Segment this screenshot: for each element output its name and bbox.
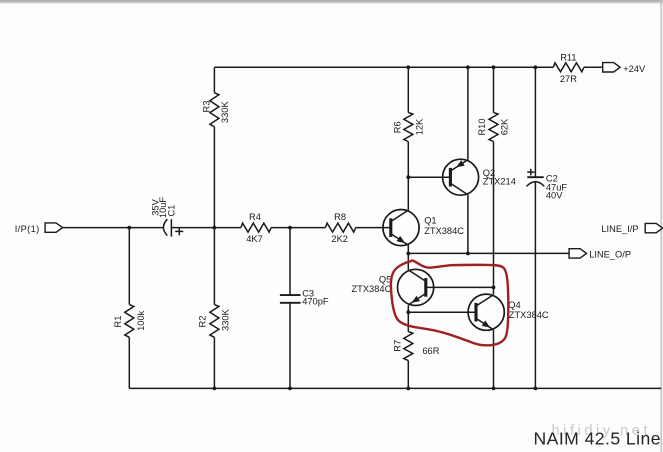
output tag LINE_I/P [601,223,662,234]
node C2 bottom [534,387,538,391]
node R6 top [406,65,410,69]
wire Q5 base [426,286,494,288]
resistor R7 66R [392,312,439,388]
resistor R11 27R [553,53,584,84]
wire Q4 base [408,311,476,313]
svg-text:2K2: 2K2 [331,234,348,244]
wire Q5 collector up [407,253,409,269]
wire Q1 emitter down [407,245,409,253]
svg-text:12K: 12K [414,118,424,135]
svg-text:ZTX384C: ZTX384C [509,310,549,320]
wire Q2 collector down [467,195,469,254]
node Q4 base junction [406,310,410,314]
svg-text:100k: 100k [136,310,146,331]
wire Q2 emitter to rail [467,67,469,159]
wire ground bottom rail [129,387,661,389]
svg-text:Q5: Q5 [379,275,391,285]
node R1 top junction [127,226,131,230]
svg-text:ZTX384C: ZTX384C [352,284,392,294]
svg-text:R7: R7 [392,340,402,352]
transistor Q5 ZTX384C (mirrored) [352,269,434,305]
transistor Q1 ZTX384C [383,210,464,246]
node R7 bottom [406,387,410,391]
node R2 bottom [213,387,217,391]
svg-text:R8: R8 [334,212,346,222]
svg-text:62K: 62K [500,118,510,135]
wire Q1 collector [407,177,409,210]
wire R8 to Q1 base [356,227,391,229]
resistor R4 4K7 [241,212,271,244]
svg-text:ZTX384C: ZTX384C [424,226,464,236]
wire R4 node to zigzag [214,227,241,229]
svg-text:4K7: 4K7 [246,234,263,244]
svg-text:R1: R1 [113,316,123,328]
node Q1 collector / Q2 base [406,175,410,179]
svg-text:LINE_I/P: LINE_I/P [601,224,638,234]
output tag LINE_O/P [569,249,631,260]
capacitor C3 470pF [280,228,329,389]
node Q5 base / Q4 collector / R10 bottom [492,286,496,290]
wire +24V top rail [214,66,553,68]
wire Q4 emitter down [493,330,495,389]
power tag +24V [603,63,646,74]
svg-text:R6: R6 [393,121,403,133]
svg-text:Q4: Q4 [508,300,520,310]
node Q4 emitter bottom [492,387,496,391]
svg-text:R2: R2 [198,316,208,328]
resistor R3 330K [201,67,230,227]
svg-text:Q1: Q1 [424,216,436,226]
svg-text:R4: R4 [249,212,261,222]
svg-text:27R: 27R [560,74,577,84]
resistor R8 2K2 [325,212,355,244]
wire Q2 base [408,176,450,178]
wire Q4 collector up [493,287,495,294]
svg-text:R3: R3 [201,101,211,113]
node Q2 collector junction [466,252,470,256]
svg-text:330K: 330K [220,101,230,124]
svg-text:ZTX214: ZTX214 [483,177,516,187]
wire R4 to R8 [271,227,325,229]
resistor R10 62K [477,67,510,287]
input tag I/P(1) [15,223,63,234]
node C2 top [534,65,538,69]
svg-text:40V: 40V [546,191,563,201]
svg-text:I/P(1): I/P(1) [15,224,40,234]
wire Q5 emitter down [407,305,409,312]
node Q1 emitter junction [406,252,410,256]
annotation red highlight loop around Q5/Q4 [391,260,508,345]
wire R11 to +24V tag [584,66,603,68]
svg-text:470pF: 470pF [302,297,329,307]
resistor R1 100k [113,228,146,389]
svg-text:R10: R10 [477,118,487,135]
node R10 top [492,65,496,69]
resistor R2 330K [198,228,231,389]
wire C1 to node [171,227,214,229]
node R3/R2 junction [213,226,217,230]
node C3 top junction [288,226,292,230]
transistor Q4 ZTX384C [468,294,549,330]
svg-text:LINE_O/P: LINE_O/P [589,249,631,259]
svg-text:C1: C1 [166,205,176,217]
svg-text:330K: 330K [220,308,230,331]
node C3 bottom [288,387,292,391]
svg-text:R11: R11 [560,53,576,63]
wire input to C1 [63,227,164,229]
resistor R6 12K [393,67,425,177]
wire output line [408,252,569,254]
svg-text:66R: 66R [422,346,439,356]
svg-text:NAIM 42.5 Line: NAIM 42.5 Line [534,428,661,448]
capacitor C2 47uF 40V [527,67,568,388]
svg-text:+24V: +24V [623,64,646,74]
node Q2 emitter top [466,65,470,69]
transistor Q2 ZTX214 [443,159,479,195]
capacitor C1 10uF 35V [150,197,183,237]
